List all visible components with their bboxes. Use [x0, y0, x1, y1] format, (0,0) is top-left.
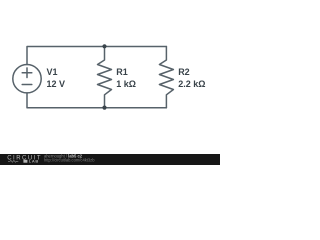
svg-text:2.2 kΩ: 2.2 kΩ [178, 79, 205, 89]
svg-text:LAB: LAB [29, 159, 39, 164]
svg-text:1 kΩ: 1 kΩ [116, 79, 136, 89]
svg-text:R2: R2 [178, 67, 190, 77]
svg-text:http://circuitlab.com/c4kt3zb: http://circuitlab.com/c4kt3zb [44, 157, 95, 162]
svg-text:12 V: 12 V [47, 79, 66, 89]
svg-text:R1: R1 [116, 67, 128, 77]
svg-text:V1: V1 [47, 67, 58, 77]
